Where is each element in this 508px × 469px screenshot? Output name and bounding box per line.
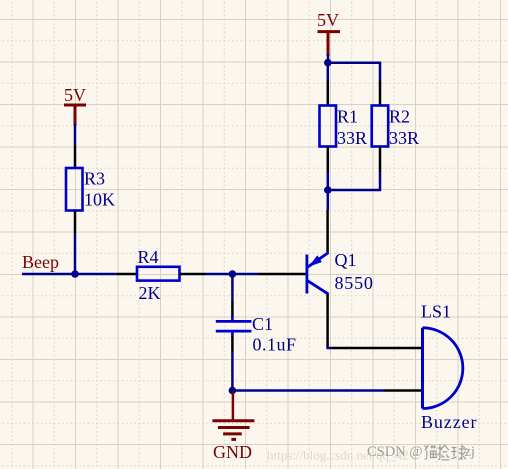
capacitor C1 xyxy=(216,316,252,337)
svg-text:5V: 5V xyxy=(317,10,339,30)
wire R2 to bottom node xyxy=(328,172,380,190)
wire collector corner xyxy=(326,347,332,350)
pin R4.1 xyxy=(117,273,137,276)
resistor R3 xyxy=(66,168,83,211)
junction GND node xyxy=(229,387,237,395)
svg-text:zj: zj xyxy=(465,444,475,460)
ground GND xyxy=(212,391,254,463)
junction C1 top node xyxy=(229,270,237,278)
svg-text:C1: C1 xyxy=(252,314,273,334)
svg-text:R4: R4 xyxy=(138,247,159,267)
wire top node down to R1 xyxy=(327,63,330,81)
球 xyxy=(452,448,457,459)
resistor R4 xyxy=(137,267,180,281)
svg-text:2K: 2K xyxy=(139,283,161,303)
wire C1 to GND node xyxy=(231,352,234,391)
pin C1.1 xyxy=(231,301,234,317)
wire 5V to R3 xyxy=(74,124,77,145)
buzzer LS1 xyxy=(423,328,463,409)
wire R3 to Beep node xyxy=(74,234,77,275)
pin Q1 emitter wire xyxy=(326,210,329,253)
wire Q1 collector down xyxy=(326,294,329,348)
power +5V (left) xyxy=(64,85,86,126)
pin R3.1 xyxy=(74,145,77,168)
wire 5V to R1R2 top node xyxy=(327,54,330,63)
watermark CSDN xyxy=(367,444,475,460)
pin LS1.1 xyxy=(332,347,422,350)
svg-text:R2: R2 xyxy=(389,107,410,127)
pin R2.2 xyxy=(379,147,382,173)
junction R1R2 bottom node xyxy=(324,186,332,194)
pin R1.2 xyxy=(327,147,330,173)
svg-text:R1: R1 xyxy=(337,107,358,127)
svg-text:Beep: Beep xyxy=(22,252,59,272)
svg-text:CSDN @: CSDN @ xyxy=(367,444,423,460)
svg-text:10K: 10K xyxy=(84,190,115,210)
svg-text:33R: 33R xyxy=(389,128,419,148)
svg-text:GND: GND xyxy=(213,442,252,462)
wire R1 to bottom node xyxy=(327,172,330,190)
transistor Q1 xyxy=(307,253,329,295)
svg-text:Buzzer: Buzzer xyxy=(421,412,477,432)
wire top node to R2 xyxy=(328,63,380,81)
svg-text:8550: 8550 xyxy=(335,273,374,293)
pin R1.1 xyxy=(327,81,330,106)
resistor R1 xyxy=(320,106,337,147)
pin R2.1 xyxy=(379,81,382,106)
junction Beep node xyxy=(71,270,79,278)
watermark CJK glyphs xyxy=(425,445,468,461)
wire Beep stub xyxy=(22,273,117,276)
svg-text:R3: R3 xyxy=(84,169,105,189)
junction R1R2 top node xyxy=(324,59,332,67)
pin R4.2 xyxy=(180,273,206,276)
resistor R2 xyxy=(372,106,389,147)
wire GND node to LS1 xyxy=(232,389,383,392)
wire R4 to C1 node xyxy=(206,273,259,276)
pin Q1 base xyxy=(258,273,306,276)
捡 xyxy=(437,445,442,460)
svg-text:33R: 33R xyxy=(337,128,367,148)
pin LS1.2 xyxy=(384,389,423,392)
pin C1.2 xyxy=(231,336,234,352)
pin R3.2 xyxy=(74,211,77,234)
svg-text:Q1: Q1 xyxy=(335,250,357,270)
svg-text:LS1: LS1 xyxy=(421,302,451,322)
wire bottom node down xyxy=(327,190,330,210)
power +5V (right) xyxy=(317,10,340,56)
svg-text:5V: 5V xyxy=(64,85,86,105)
猫 xyxy=(425,445,429,460)
wire C1 node down xyxy=(231,274,234,301)
svg-text:0.1uF: 0.1uF xyxy=(253,335,297,355)
